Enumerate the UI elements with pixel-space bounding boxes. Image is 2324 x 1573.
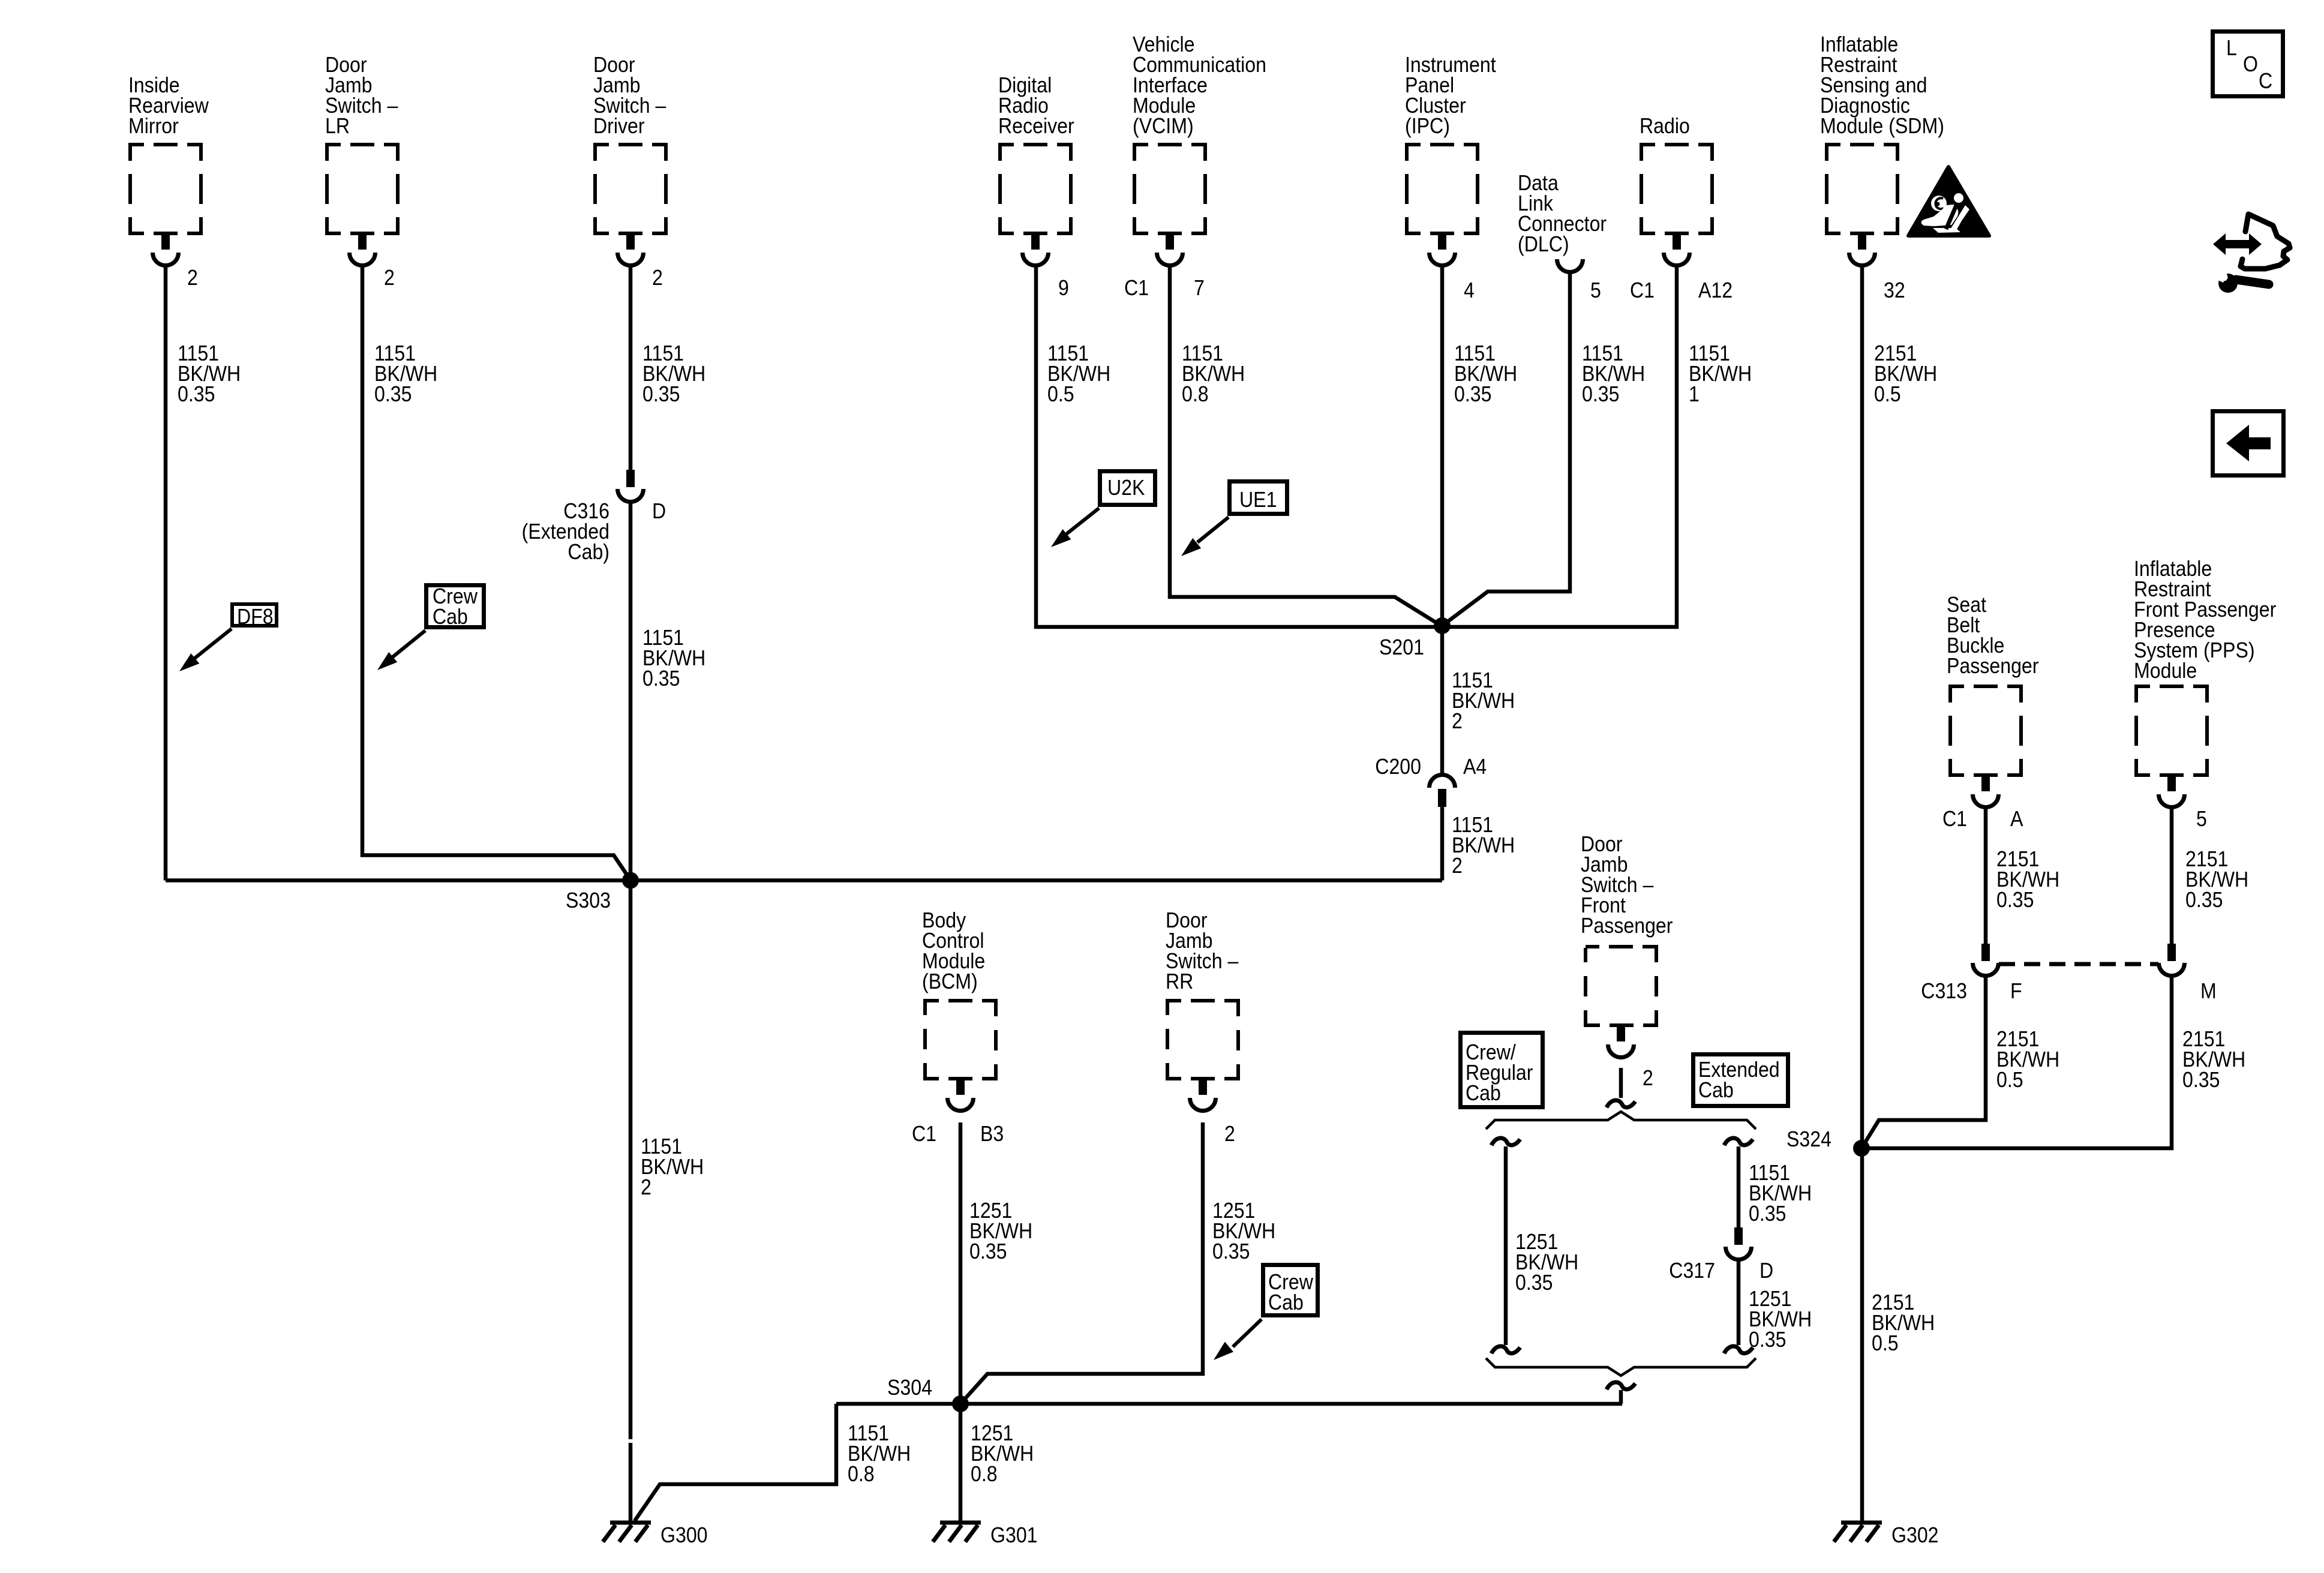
- svg-text:F: F: [2010, 979, 2022, 1003]
- svg-text:Cab): Cab): [568, 540, 609, 564]
- svg-text:9: 9: [1058, 276, 1069, 300]
- svg-text:C1: C1: [912, 1122, 936, 1146]
- svg-text:RR: RR: [1166, 969, 1193, 993]
- svg-text:2: 2: [1452, 709, 1463, 733]
- svg-text:0.35: 0.35: [178, 382, 215, 406]
- svg-text:0.35: 0.35: [1212, 1239, 1250, 1263]
- svg-text:0.8: 0.8: [1182, 382, 1209, 406]
- svg-text:4: 4: [1464, 278, 1475, 302]
- svg-text:C200: C200: [1375, 755, 1421, 779]
- svg-text:0.5: 0.5: [1874, 382, 1901, 406]
- svg-text:A4: A4: [1463, 755, 1487, 779]
- svg-text:2: 2: [1643, 1066, 1653, 1090]
- svg-text:D: D: [652, 499, 666, 523]
- svg-text:2: 2: [652, 266, 663, 290]
- svg-text:2: 2: [384, 266, 395, 290]
- svg-text:B3: B3: [980, 1122, 1004, 1146]
- svg-text:C1: C1: [1630, 278, 1655, 302]
- svg-text:O: O: [2243, 52, 2258, 76]
- svg-text:Cab: Cab: [1466, 1081, 1501, 1105]
- svg-text:0.5: 0.5: [1047, 382, 1074, 406]
- svg-text:C1: C1: [1124, 276, 1149, 300]
- svg-text:(IPC): (IPC): [1405, 114, 1450, 138]
- svg-text:S303: S303: [566, 888, 611, 912]
- svg-text:0.35: 0.35: [2185, 888, 2223, 912]
- svg-text:C: C: [2259, 69, 2272, 93]
- svg-text:5: 5: [1590, 278, 1601, 302]
- svg-text:Driver: Driver: [593, 114, 645, 138]
- svg-text:0.35: 0.35: [1996, 888, 2034, 912]
- svg-text:1: 1: [1689, 382, 1700, 406]
- svg-text:C313: C313: [1921, 979, 1967, 1003]
- svg-text:Passenger: Passenger: [1581, 914, 1673, 938]
- svg-text:0.35: 0.35: [1582, 382, 1619, 406]
- svg-text:0.5: 0.5: [1996, 1068, 2023, 1092]
- svg-text:0.35: 0.35: [1454, 382, 1491, 406]
- svg-text:S201: S201: [1379, 635, 1424, 659]
- svg-text:2: 2: [1224, 1122, 1235, 1146]
- svg-text:C317: C317: [1669, 1259, 1715, 1283]
- svg-text:D: D: [1759, 1259, 1773, 1283]
- svg-text:(DLC): (DLC): [1518, 232, 1569, 256]
- svg-text:Mirror: Mirror: [128, 114, 179, 138]
- svg-text:0.35: 0.35: [374, 382, 412, 406]
- svg-text:5: 5: [2196, 807, 2207, 831]
- svg-text:0.35: 0.35: [2182, 1068, 2220, 1092]
- svg-text:0.8: 0.8: [971, 1462, 998, 1486]
- svg-text:Cab: Cab: [1698, 1078, 1734, 1102]
- svg-text:U2K: U2K: [1107, 476, 1145, 500]
- svg-text:G301: G301: [990, 1523, 1038, 1547]
- svg-text:Cab: Cab: [433, 605, 468, 629]
- svg-text:M: M: [2200, 979, 2217, 1003]
- svg-text:2: 2: [641, 1175, 651, 1199]
- svg-text:A12: A12: [1698, 278, 1733, 302]
- svg-text:32: 32: [1884, 278, 1905, 302]
- svg-text:(BCM): (BCM): [922, 969, 978, 993]
- svg-text:Cab: Cab: [1268, 1290, 1304, 1314]
- svg-text:A: A: [2010, 807, 2023, 831]
- svg-text:0.35: 0.35: [642, 667, 680, 691]
- svg-text:DF8: DF8: [237, 605, 274, 629]
- svg-text:2: 2: [1452, 854, 1463, 878]
- svg-text:LR: LR: [325, 114, 350, 138]
- svg-text:0.35: 0.35: [969, 1239, 1007, 1263]
- svg-text:S304: S304: [887, 1376, 932, 1400]
- svg-text:0.5: 0.5: [1872, 1331, 1899, 1355]
- svg-text:Module (SDM): Module (SDM): [1820, 114, 1944, 138]
- svg-text:2: 2: [187, 266, 198, 290]
- svg-text:Radio: Radio: [1640, 114, 1690, 138]
- svg-text:0.35: 0.35: [642, 382, 680, 406]
- svg-text:UE1: UE1: [1239, 488, 1277, 512]
- svg-text:(VCIM): (VCIM): [1133, 114, 1194, 138]
- svg-text:0.35: 0.35: [1749, 1328, 1786, 1352]
- svg-text:Receiver: Receiver: [998, 114, 1074, 138]
- svg-text:0.8: 0.8: [848, 1462, 875, 1486]
- svg-text:S324: S324: [1786, 1127, 1831, 1151]
- svg-text:L: L: [2226, 36, 2237, 60]
- svg-text:7: 7: [1194, 276, 1205, 300]
- svg-text:0.35: 0.35: [1749, 1202, 1786, 1226]
- svg-text:0.35: 0.35: [1515, 1271, 1553, 1295]
- svg-text:G300: G300: [660, 1523, 708, 1547]
- svg-text:Passenger: Passenger: [1947, 654, 2038, 678]
- svg-text:Module: Module: [2134, 659, 2197, 683]
- svg-text:C1: C1: [1942, 807, 1967, 831]
- svg-text:G302: G302: [1891, 1523, 1939, 1547]
